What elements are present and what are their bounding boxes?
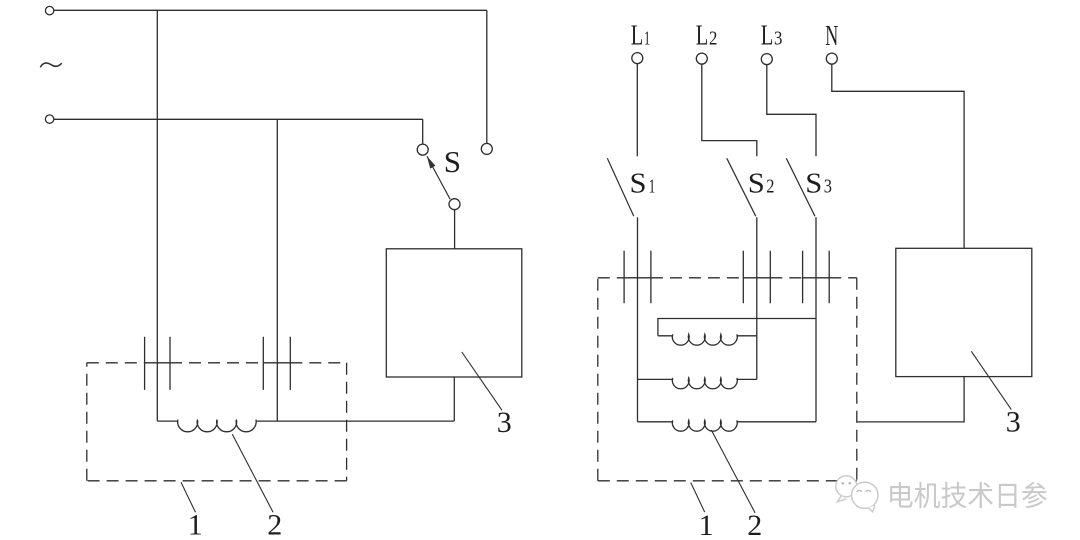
svg-text:L: L — [696, 20, 709, 51]
watermark icon: small chat bubble — [836, 476, 857, 502]
terminal L2 — [696, 53, 707, 64]
wire: L3 down and over to switch S3 — [767, 65, 816, 157]
svg-text:L: L — [761, 20, 774, 51]
leader line to label 3 (left) — [462, 352, 502, 410]
terminal L1 — [632, 53, 643, 64]
svg-text:S: S — [748, 168, 765, 199]
switch S3 blade — [786, 158, 815, 216]
winding W3 (bottom coil, right motor) — [638, 420, 817, 431]
wire: second supply rail — [53, 118, 423, 120]
motor enclosure box 1 (dashed, right) — [598, 278, 857, 481]
switch S moving contact — [449, 199, 460, 210]
svg-text:3: 3 — [824, 175, 832, 197]
wire: moving contact to box 3 — [454, 210, 456, 249]
wire: box 3 output down to winding line — [453, 377, 455, 421]
tap wire H1: winding 1 left end over to S3 line — [658, 319, 816, 336]
leader line to label 2 (left) — [232, 434, 273, 512]
wire: L1 down to switch S1 — [636, 64, 638, 157]
leader line to label 1 (left) — [181, 482, 196, 512]
svg-text:2: 2 — [709, 27, 717, 49]
svg-text:2: 2 — [747, 509, 762, 540]
svg-text:3: 3 — [497, 406, 512, 439]
wire: S3 output down through terminal into motor — [815, 217, 817, 421]
winding 2 baseline with coil humps (left motor) — [157, 420, 454, 432]
svg-text:3: 3 — [1006, 406, 1021, 439]
winding W1 (top coil, right motor) — [658, 334, 757, 345]
terminal T2 (bottom supply) — [45, 115, 53, 123]
leader line to label 1 (right) — [691, 483, 705, 513]
winding W2 (middle coil, right motor) — [638, 378, 757, 389]
switch S2 blade — [727, 158, 756, 216]
svg-text:电机技术日参: 电机技术日参 — [887, 480, 1048, 512]
svg-text:S: S — [444, 144, 461, 179]
svg-text:1: 1 — [644, 27, 650, 49]
leader line to label 3 (right) — [971, 351, 1011, 409]
terminal L3 — [761, 54, 772, 65]
box 3 (left controller) — [386, 249, 522, 377]
terminal plates on feed wire 2 — [263, 337, 290, 390]
terminal T1 (top supply) — [45, 6, 53, 14]
svg-text:L: L — [631, 20, 644, 51]
wire: vertical feed from top rail into motor — [156, 10, 158, 421]
wire: box 3 output to motor enclosure — [857, 377, 964, 422]
wire: S1 output down through terminal into motor — [637, 217, 639, 421]
terminal plates on S3 wire — [803, 251, 830, 304]
AC source symbol ~ — [40, 63, 62, 67]
switch S blade arrowhead — [427, 156, 436, 169]
wire: drop to switch contact A — [422, 119, 424, 144]
wire: N over to box 3 — [832, 64, 964, 248]
svg-text:2: 2 — [766, 175, 774, 197]
svg-text:2: 2 — [267, 508, 282, 540]
wire: top supply rail — [53, 9, 487, 11]
wire: L2 down and over to switch S2 — [702, 64, 757, 156]
wire: rail drop to switch contact B — [486, 10, 488, 143]
terminal plates on feed wire 1 — [145, 337, 170, 390]
svg-text:3: 3 — [774, 27, 782, 49]
svg-text:N: N — [825, 21, 838, 52]
svg-text:S: S — [805, 168, 822, 199]
wire: S2 output down to winding junctions — [756, 217, 758, 379]
svg-text:1: 1 — [188, 508, 203, 540]
svg-text:1: 1 — [699, 509, 714, 540]
motor enclosure box 1 (dashed, left) — [87, 363, 347, 481]
box 3 (right controller) — [896, 248, 1032, 376]
terminal plates on S1 wire — [624, 251, 651, 304]
switch S blade — [427, 156, 450, 199]
switch S fixed contact A — [417, 144, 428, 155]
svg-text:1: 1 — [649, 175, 656, 197]
leader line to label 2 (right) — [711, 430, 755, 513]
switch S1 blade — [607, 158, 634, 216]
switch S fixed contact B — [481, 143, 492, 154]
terminal N — [826, 53, 837, 64]
svg-text:S: S — [630, 168, 647, 199]
wire: vertical feed from second rail into motor — [276, 119, 278, 421]
watermark icon: large chat bubble — [852, 482, 878, 512]
terminal plates on S2 wire — [743, 251, 770, 304]
